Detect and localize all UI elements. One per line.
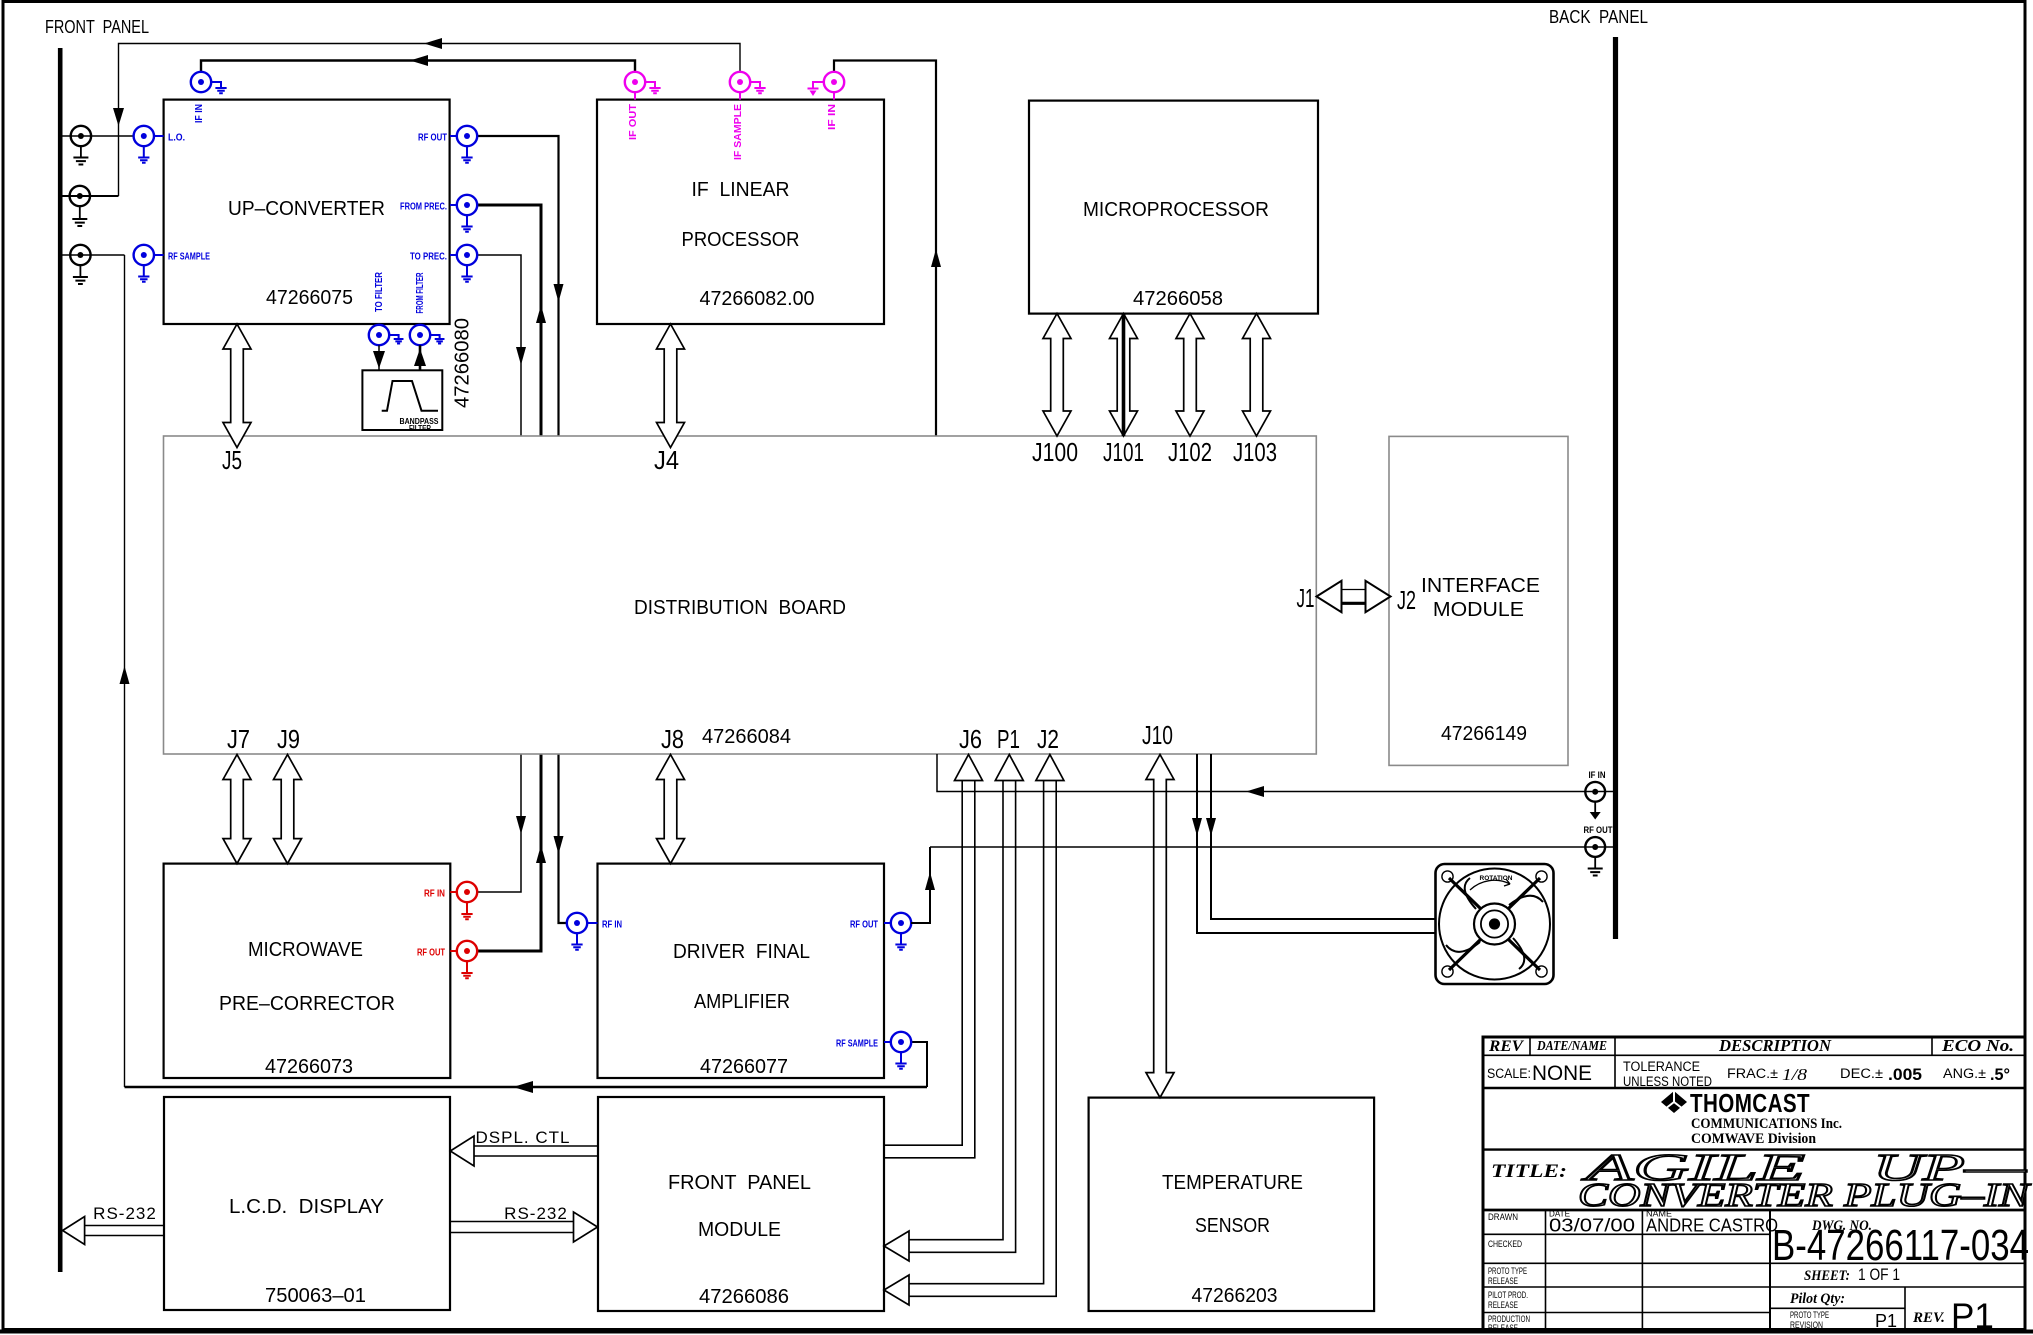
svg-text:RF OUT: RF OUT bbox=[850, 919, 878, 931]
svg-text:J100: J100 bbox=[1032, 437, 1078, 467]
connector J2 arrow and wires to FRONT PANEL MODULE bbox=[1036, 755, 1064, 781]
wire: IF SAMPLE to front panel connector bbox=[119, 44, 741, 197]
svg-text:DISTRIBUTION BOARD: DISTRIBUTION BOARD bbox=[634, 596, 846, 619]
wire: MICROWAVE PRE-CORRECTOR RF OUT to UP-CONVERTER FROM PREC. (heavy) bbox=[477, 205, 541, 951]
arrow on IF SAMPLE wire (left) bbox=[424, 38, 442, 49]
svg-text:J8: J8 bbox=[661, 724, 684, 754]
svg-text:47266073: 47266073 bbox=[265, 1055, 353, 1078]
UP-CONVERTER IF IN connector bbox=[191, 72, 211, 92]
svg-text:UP–CONVERTER: UP–CONVERTER bbox=[228, 197, 385, 220]
front panel bus bar bbox=[58, 48, 63, 1272]
connector J6 arrow and wires to FRONT PANEL MODULE bbox=[955, 755, 983, 781]
wire: UP-CONVERTER TO PREC. to MICROWAVE PRE-CORRECTOR RF IN bbox=[477, 255, 521, 892]
svg-text:47266082.00: 47266082.00 bbox=[700, 287, 815, 310]
svg-text:FRAC.±: FRAC.± bbox=[1727, 1066, 1778, 1081]
svg-text:1 OF 1: 1 OF 1 bbox=[1858, 1265, 1900, 1284]
DSPL. CTL hollow arrow FRONT PANEL MODULE to L.C.D. DISPLAY bbox=[474, 1145, 598, 1147]
svg-text:FRONT PANEL: FRONT PANEL bbox=[45, 17, 149, 37]
svg-text:FROM FILTER: FROM FILTER bbox=[414, 272, 426, 313]
svg-text:CHECKED: CHECKED bbox=[1488, 1239, 1522, 1250]
arrow on IF SAMPLE wire (down) bbox=[113, 108, 124, 126]
svg-text:UNLESS NOTED: UNLESS NOTED bbox=[1623, 1074, 1712, 1089]
wire: IF OUT to UP-CONVERTER IF IN (heavy) bbox=[201, 61, 635, 73]
arrow: TO PREC. line (down, above board) bbox=[516, 347, 526, 365]
svg-text:47266084: 47266084 bbox=[702, 725, 791, 748]
module DRIVER FINAL AMPLIFIER 47266077 bbox=[598, 864, 885, 1078]
svg-text:REV: REV bbox=[1488, 1038, 1524, 1055]
svg-text:IF IN: IF IN bbox=[1589, 770, 1606, 781]
UP-CONVERTER RF OUT connector bbox=[457, 126, 477, 146]
svg-text:P1: P1 bbox=[997, 724, 1020, 754]
DRIVER FINAL AMPLIFIER RF SAMPLE connector bbox=[891, 1032, 911, 1052]
wire: TO FILTER to bandpass filter bbox=[378, 345, 380, 370]
svg-text:MICROWAVE: MICROWAVE bbox=[248, 938, 363, 961]
svg-text:J102: J102 bbox=[1168, 437, 1212, 467]
svg-text:RF OUT: RF OUT bbox=[418, 132, 447, 144]
svg-text:SENSOR: SENSOR bbox=[1195, 1214, 1270, 1237]
UP-CONVERTER FROM PREC. connector bbox=[457, 195, 477, 215]
svg-text:J5: J5 bbox=[222, 445, 242, 475]
wire: front panel RF SAMPLE connector bbox=[62, 254, 125, 256]
bandpass filter box bbox=[362, 370, 442, 430]
block arrow J8: DISTRIBUTION BOARD to DRIVER FINAL AMPLIFIER bbox=[657, 755, 685, 864]
svg-text:PRE–CORRECTOR: PRE–CORRECTOR bbox=[219, 992, 395, 1015]
module L.C.D. DISPLAY 750063-01 bbox=[164, 1097, 450, 1310]
wire: DRIVER RF SAMPLE drop bbox=[911, 1042, 927, 1087]
module TEMPERATURE SENSOR 47266203 bbox=[1089, 1098, 1375, 1311]
wire: DISTRIBUTION BOARD to fan (inner) bbox=[1211, 754, 1435, 919]
svg-text:RS-232: RS-232 bbox=[93, 1204, 157, 1223]
svg-text:MICROPROCESSOR: MICROPROCESSOR bbox=[1083, 198, 1269, 221]
svg-text:COMMUNICATIONS Inc.: COMMUNICATIONS Inc. bbox=[1691, 1116, 1842, 1132]
svg-text:J101: J101 bbox=[1103, 437, 1144, 467]
svg-text:47266058: 47266058 bbox=[1133, 287, 1223, 310]
front panel connector RF SAMPLE output bbox=[70, 245, 90, 265]
bandpass filter response curve bbox=[382, 381, 438, 411]
IF LINEAR PROCESSOR IF SAMPLE connector bbox=[730, 72, 750, 92]
module UP-CONVERTER 47266075 bbox=[164, 100, 450, 324]
svg-text:FILTER: FILTER bbox=[409, 424, 431, 433]
connector P1 arrow and wires to FRONT PANEL MODULE bbox=[995, 755, 1023, 781]
arrow on IF IN wire (up) bbox=[931, 249, 941, 267]
svg-text:DSPL. CTL: DSPL. CTL bbox=[476, 1128, 571, 1147]
svg-text:P1: P1 bbox=[1875, 1311, 1897, 1331]
IF LINEAR PROCESSOR IF OUT connector bbox=[625, 72, 645, 92]
wire: DISTRIBUTION BOARD to fan (outer) bbox=[1197, 754, 1435, 933]
THOMCAST logo and company name bbox=[1661, 1091, 1687, 1113]
svg-text:PROCESSOR: PROCESSOR bbox=[682, 228, 800, 251]
wire: front panel L.O. connector to UP-CONVERTER L.O. bbox=[62, 135, 134, 137]
block arrow J7: DISTRIBUTION BOARD to MICROWAVE PRE-CORRECTOR bbox=[223, 755, 251, 864]
wire: DRIVER RF OUT to back panel RF OUT bbox=[911, 847, 930, 923]
svg-text:IF IN: IF IN bbox=[826, 104, 838, 130]
MICROWAVE PRE-CORRECTOR RF IN connector bbox=[457, 882, 477, 902]
svg-text:FRONT PANEL: FRONT PANEL bbox=[668, 1171, 811, 1194]
svg-text:IF OUT: IF OUT bbox=[627, 103, 639, 140]
svg-text:RELEASE: RELEASE bbox=[1488, 1276, 1518, 1287]
svg-text:INTERFACE: INTERFACE bbox=[1421, 574, 1540, 597]
svg-text:03/07/00: 03/07/00 bbox=[1549, 1216, 1635, 1236]
arrow: TO PREC. line (down, below board) bbox=[516, 816, 526, 834]
wire: DISTRIBUTION BOARD to IF LINEAR PROCESSOR IF IN bbox=[834, 61, 936, 437]
svg-text:IF SAMPLE: IF SAMPLE bbox=[732, 104, 744, 160]
svg-text:J2: J2 bbox=[1037, 724, 1059, 754]
svg-text:RF IN: RF IN bbox=[602, 919, 622, 931]
svg-text:J2: J2 bbox=[1397, 585, 1416, 615]
svg-text:THOMCAST: THOMCAST bbox=[1690, 1088, 1810, 1118]
svg-text:SCALE:: SCALE: bbox=[1487, 1066, 1531, 1081]
svg-text:FROM PREC.: FROM PREC. bbox=[400, 201, 447, 213]
svg-text:IF LINEAR: IF LINEAR bbox=[692, 178, 790, 201]
svg-text:47266077: 47266077 bbox=[700, 1055, 788, 1078]
module INTERFACE MODULE 47266149 bbox=[1389, 436, 1568, 765]
svg-text:IF IN: IF IN bbox=[193, 104, 205, 123]
DRIVER FINAL AMPLIFIER RF OUT connector bbox=[891, 913, 911, 933]
svg-text:RF OUT: RF OUT bbox=[1584, 825, 1613, 836]
module MICROWAVE PRE-CORRECTOR 47266073 bbox=[164, 864, 451, 1078]
module FRONT PANEL MODULE 47266086 bbox=[598, 1097, 884, 1311]
svg-text:.005: .005 bbox=[1888, 1065, 1922, 1084]
svg-text:RELEASE: RELEASE bbox=[1488, 1323, 1518, 1334]
svg-text:RF OUT: RF OUT bbox=[417, 947, 445, 959]
MICROWAVE PRE-CORRECTOR RF OUT connector bbox=[457, 941, 477, 961]
svg-text:REV.: REV. bbox=[1912, 1310, 1945, 1326]
wire: RF SAMPLE return path vertical bbox=[124, 255, 126, 1087]
svg-text:RS-232: RS-232 bbox=[504, 1204, 568, 1223]
svg-text:MODULE: MODULE bbox=[698, 1218, 781, 1241]
svg-text:J103: J103 bbox=[1233, 437, 1277, 467]
block arrow J4: IF LINEAR PROCESSOR to DISTRIBUTION BOARD bbox=[657, 324, 685, 448]
svg-text:DESCRIPTION: DESCRIPTION bbox=[1718, 1036, 1832, 1055]
svg-text:L.C.D. DISPLAY: L.C.D. DISPLAY bbox=[229, 1195, 384, 1218]
block arrow J103: MICROPROCESSOR to DISTRIBUTION BOARD bbox=[1243, 314, 1271, 437]
svg-text:BACK PANEL: BACK PANEL bbox=[1549, 7, 1648, 27]
svg-text:J9: J9 bbox=[277, 724, 300, 754]
svg-text:ANG.±: ANG.± bbox=[1943, 1066, 1986, 1081]
arrow on IF IN wire (left) bbox=[1246, 786, 1264, 797]
title block bbox=[1483, 1037, 2025, 1331]
UP-CONVERTER RF SAMPLE connector bbox=[134, 245, 154, 265]
svg-text:47266203: 47266203 bbox=[1192, 1284, 1278, 1307]
arrow: RF OUT line (down, above board) bbox=[554, 284, 564, 302]
UP-CONVERTER TO PREC. connector bbox=[457, 245, 477, 265]
svg-text:REVISION: REVISION bbox=[1790, 1320, 1823, 1331]
svg-text:DRAWN: DRAWN bbox=[1488, 1212, 1518, 1223]
svg-text:DEC.±: DEC.± bbox=[1840, 1066, 1883, 1081]
svg-text:.5°: .5° bbox=[1990, 1065, 2010, 1084]
J1-J2 interconnect double arrow bbox=[1317, 581, 1342, 612]
svg-text:RF SAMPLE: RF SAMPLE bbox=[168, 251, 210, 263]
svg-text:DRIVER FINAL: DRIVER FINAL bbox=[673, 940, 810, 963]
module IF LINEAR PROCESSOR 47266082.00 bbox=[597, 100, 884, 324]
svg-text:NONE: NONE bbox=[1532, 1062, 1592, 1085]
svg-text:AMPLIFIER: AMPLIFIER bbox=[694, 990, 790, 1013]
svg-text:RF SAMPLE: RF SAMPLE bbox=[836, 1038, 878, 1050]
DRIVER FINAL AMPLIFIER RF IN connector bbox=[567, 913, 587, 933]
svg-text:MODULE: MODULE bbox=[1433, 598, 1524, 621]
svg-text:ROTATION: ROTATION bbox=[1480, 875, 1513, 882]
back panel bus bar bbox=[1613, 37, 1618, 939]
front panel connector L.O. input bbox=[71, 126, 91, 146]
block arrow J101: MICROPROCESSOR to DISTRIBUTION BOARD bbox=[1110, 314, 1138, 437]
svg-text:RF IN: RF IN bbox=[424, 888, 445, 900]
wire: DISTRIBUTION BOARD to back panel IF IN bbox=[937, 754, 1604, 792]
block arrow J102: MICROPROCESSOR to DISTRIBUTION BOARD bbox=[1176, 314, 1204, 437]
arrow: FROM PREC. line (up, above board) bbox=[536, 305, 546, 323]
svg-text:47266080: 47266080 bbox=[452, 318, 474, 408]
block arrow J10: DISTRIBUTION BOARD to TEMPERATURE SENSOR bbox=[1146, 755, 1174, 1098]
svg-text:1/8: 1/8 bbox=[1782, 1065, 1808, 1084]
wire: back panel RF OUT line bbox=[930, 846, 1604, 848]
svg-text:47266075: 47266075 bbox=[266, 286, 353, 309]
front panel connector IF SAMPLE output bbox=[70, 186, 90, 206]
arrow: RF OUT line (down, below board) bbox=[554, 836, 564, 854]
svg-text:J10: J10 bbox=[1142, 720, 1173, 750]
wire: bandpass filter to FROM FILTER (heavy) bbox=[419, 345, 422, 370]
arrow on RF SAMPLE return (left) bbox=[513, 1081, 533, 1093]
svg-text:L.O.: L.O. bbox=[168, 132, 185, 144]
svg-text:TEMPERATURE: TEMPERATURE bbox=[1162, 1171, 1303, 1194]
svg-text:47266086: 47266086 bbox=[699, 1285, 789, 1308]
block arrow J100: MICROPROCESSOR to DISTRIBUTION BOARD bbox=[1043, 314, 1071, 437]
svg-text:J4: J4 bbox=[654, 445, 679, 475]
svg-text:TO PREC.: TO PREC. bbox=[410, 251, 447, 263]
svg-text:SHEET:: SHEET: bbox=[1804, 1268, 1850, 1284]
UP-CONVERTER L.O. connector bbox=[134, 126, 154, 146]
block arrow J9: DISTRIBUTION BOARD to MICROWAVE PRE-CORRECTOR bbox=[274, 755, 302, 864]
svg-text:J6: J6 bbox=[959, 724, 982, 754]
svg-text:TOLERANCE: TOLERANCE bbox=[1623, 1059, 1700, 1074]
wire: RF SAMPLE return path horizontal (heavy) bbox=[125, 1086, 928, 1089]
arrow on RF SAMPLE return (up) bbox=[120, 666, 130, 684]
svg-text:J1: J1 bbox=[1297, 583, 1315, 613]
block arrow J5: UP-CONVERTER to DISTRIBUTION BOARD bbox=[223, 324, 251, 448]
svg-text:P1: P1 bbox=[1951, 1297, 1994, 1335]
wire: front panel connector J2 stub (heavy) bbox=[62, 195, 119, 197]
IF LINEAR PROCESSOR IF IN connector bbox=[824, 72, 844, 92]
svg-text:DATE/NAME: DATE/NAME bbox=[1536, 1039, 1607, 1054]
arrow on IF OUT wire (left) bbox=[410, 55, 428, 66]
svg-text:Pilot Qty:: Pilot Qty: bbox=[1790, 1291, 1845, 1307]
svg-text:RELEASE: RELEASE bbox=[1488, 1300, 1518, 1311]
svg-text:47266149: 47266149 bbox=[1441, 722, 1527, 745]
RS-232 hollow arrow L.C.D. DISPLAY to front panel bbox=[85, 1225, 164, 1227]
svg-text:ANDRE CASTRO: ANDRE CASTRO bbox=[1646, 1216, 1778, 1236]
svg-text:J7: J7 bbox=[227, 724, 250, 754]
svg-text:TO FILTER: TO FILTER bbox=[373, 272, 385, 312]
arrow: FROM PREC. line (up, below board) bbox=[536, 845, 546, 863]
module MICROPROCESSOR 47266058 bbox=[1029, 101, 1318, 314]
svg-text:750063–01: 750063–01 bbox=[265, 1284, 366, 1307]
svg-text:COMWAVE Division: COMWAVE Division bbox=[1691, 1131, 1816, 1147]
RS-232 hollow arrow L.C.D. DISPLAY to FRONT PANEL MODULE bbox=[450, 1221, 574, 1223]
wire: UP-CONVERTER RF OUT to DRIVER FINAL AMPLIFIER RF IN bbox=[477, 136, 567, 923]
svg-text:B-47266117-034: B-47266117-034 bbox=[1772, 1221, 2029, 1270]
module DISTRIBUTION BOARD 47266084 bbox=[164, 436, 1317, 754]
heavy wire inside J101 arrow bbox=[1122, 314, 1126, 437]
fan assembly bbox=[1436, 864, 1554, 984]
svg-text:TITLE:: TITLE: bbox=[1491, 1161, 1567, 1182]
svg-text:ECO No.: ECO No. bbox=[1941, 1036, 2014, 1055]
